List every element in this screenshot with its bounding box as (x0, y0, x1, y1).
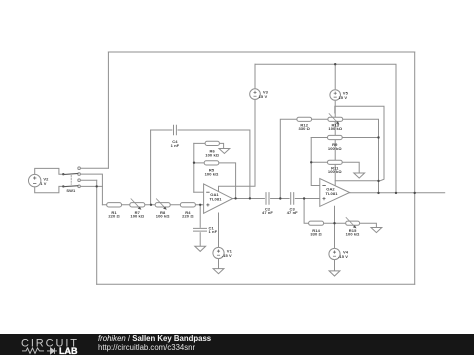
resistor R1 (107, 203, 122, 207)
wire R12 branch vertical (280, 119, 297, 198)
wire outer loop top edge (108, 51, 414, 53)
voltage source V4 (329, 248, 340, 259)
wire R11 row to ground (311, 162, 359, 173)
svg-text:100 kΩ: 100 kΩ (205, 171, 220, 176)
wire C4 left tap down to input row (150, 130, 152, 205)
svg-text:47 nF: 47 nF (262, 210, 273, 215)
CircuitLab logo (20, 336, 90, 355)
footer url (98, 344, 195, 352)
wire OA2 Vminus pin to V4 (334, 206, 336, 248)
capacitor C2 (265, 192, 270, 204)
svg-text:1 nF: 1 nF (209, 229, 218, 234)
wire outer loop right edge (414, 52, 416, 284)
svg-text:100 kΩ: 100 kΩ (156, 214, 171, 219)
ground for V4 (329, 271, 340, 276)
ground for R11 (354, 173, 365, 178)
capacitor C4 (172, 125, 177, 135)
wire OA2 Vplus node horizontal (335, 180, 378, 182)
resistor R5 (204, 161, 219, 165)
wire OA1 inverting input (194, 191, 204, 193)
svg-text:220 Ω: 220 Ω (108, 214, 120, 219)
wire output stub (350, 192, 445, 194)
svg-text:100 kΩ: 100 kΩ (130, 214, 145, 219)
svg-text:15 V: 15 V (259, 94, 268, 99)
svg-text:330 Ω: 330 Ω (298, 126, 310, 131)
svg-text:100 kΩ: 100 kΩ (328, 169, 343, 174)
svg-text:100 kΩ: 100 kΩ (328, 146, 343, 151)
wire OA1 Vminus pin to V1 (218, 213, 220, 247)
svg-text:1 nF: 1 nF (171, 143, 180, 148)
svg-text:100 kΩ: 100 kΩ (346, 232, 361, 237)
wire outer loop left upper vertical (107, 52, 109, 168)
svg-text:47 nF: 47 nF (287, 210, 298, 215)
svg-text:15 V: 15 V (338, 95, 347, 100)
wire R13 wiper to feedback (335, 106, 384, 181)
wire V3 bottom to OA1 Vplus pin (219, 99, 256, 191)
ground for V1 (213, 269, 224, 274)
wire switch throw D to lower left vertical (80, 185, 102, 187)
voltage source V5 (330, 90, 341, 101)
wire R9 left (311, 137, 327, 139)
footer title (98, 335, 211, 343)
voltage source V2 (29, 174, 41, 186)
svg-text:-15 V: -15 V (222, 253, 232, 258)
capacitor C3 (290, 192, 295, 204)
svg-text:1 V: 1 V (40, 181, 47, 186)
wire R13 right to feedback vertical (343, 119, 379, 193)
switch SW1 (62, 167, 80, 188)
wire supply rail top (255, 64, 396, 193)
wire R6 row to ground (194, 143, 224, 148)
resistor R6 (205, 141, 219, 145)
svg-text:-15 V: -15 V (338, 254, 348, 259)
voltage source V1 (213, 247, 224, 258)
wire R12 to R13 (312, 118, 328, 120)
wire C4 row (151, 130, 250, 198)
svg-text:100 kΩ: 100 kΩ (328, 126, 343, 131)
svg-text:330 Ω: 330 Ω (310, 232, 322, 237)
wire V2 plus to switch pole 1 (35, 168, 63, 174)
resistor R12 (297, 117, 312, 121)
wire C1 bottom to ground (199, 231, 201, 246)
wire V5 top to rail (334, 64, 336, 89)
svg-text:TL081: TL081 (209, 196, 222, 201)
wire V5 bottom to OA2 Vplus pin (334, 101, 336, 185)
capacitor C1 (193, 228, 207, 232)
svg-text:SW1: SW1 (66, 188, 76, 193)
voltage source V3 (250, 89, 261, 100)
svg-text:220 Ω: 220 Ω (182, 214, 194, 219)
resistor R13 (328, 114, 343, 125)
wire R9 right (342, 137, 378, 139)
wire OA1 output row to OA2 plus (233, 198, 320, 200)
wire C1 branch from input row (199, 205, 201, 229)
ground for R15 (371, 228, 382, 233)
resistor R15 (346, 218, 360, 229)
resistor R7 (130, 199, 145, 210)
wire switch throw B to input row (80, 174, 102, 205)
footer bar (0, 334, 474, 355)
resistor R11 (328, 160, 343, 164)
wire outer loop bottom edge (97, 283, 415, 285)
wire R5 row to output (194, 163, 236, 199)
svg-text:TL081: TL081 (325, 191, 338, 196)
wire switch throw C to lower left vertical (80, 179, 96, 181)
wire switch throw A to left edge (80, 167, 108, 169)
svg-text:LAB: LAB (59, 346, 78, 355)
resistor R14 (309, 221, 324, 225)
resistor R9 (328, 135, 343, 139)
ground for C1 (195, 246, 206, 251)
wire outer loop left lower vertical (96, 180, 98, 284)
wire R9 R11 left vertical to OA2 minus (311, 138, 320, 186)
wire V3 top to rail (254, 64, 256, 89)
wire V2 minus to switch pole 2 (35, 186, 63, 192)
wire feedback vertical R5 R6 left (193, 143, 195, 192)
resistor R4 (180, 203, 195, 207)
resistor R8 (155, 199, 170, 210)
wire V1 bottom to ground (218, 259, 220, 269)
op-amp OA1 (204, 184, 233, 213)
node junction dots (150, 204, 152, 206)
ground for R6 (219, 149, 230, 154)
svg-text:100 kΩ: 100 kΩ (205, 152, 220, 157)
wire V4 bottom to ground (334, 260, 336, 271)
wire input row R1 R7 R8 R4 to OA1 plus (102, 204, 203, 206)
wire R14 R15 row (304, 199, 376, 228)
op-amp OA2 (320, 179, 350, 207)
